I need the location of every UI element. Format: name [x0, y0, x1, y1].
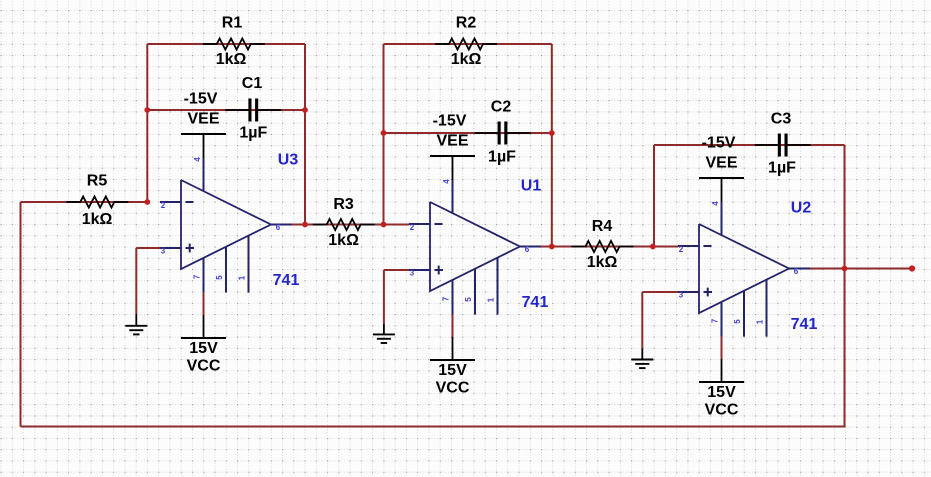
- svg-text:5: 5: [215, 275, 224, 280]
- svg-text:1kΩ: 1kΩ: [216, 51, 247, 68]
- svg-text:R1: R1: [222, 15, 243, 32]
- svg-text:7: 7: [193, 274, 202, 279]
- svg-text:6: 6: [794, 267, 799, 276]
- svg-text:2: 2: [161, 201, 166, 210]
- svg-text:VCC: VCC: [187, 358, 221, 375]
- svg-text:4: 4: [193, 157, 202, 162]
- svg-text:7: 7: [442, 296, 451, 301]
- svg-text:U3: U3: [278, 152, 299, 169]
- svg-text:3: 3: [679, 291, 684, 300]
- svg-text:VEE: VEE: [187, 111, 219, 128]
- svg-text:-15V: -15V: [433, 113, 467, 130]
- svg-text:3: 3: [161, 247, 166, 256]
- svg-text:4: 4: [711, 201, 720, 206]
- svg-text:C1: C1: [242, 75, 263, 92]
- svg-text:1: 1: [487, 297, 496, 302]
- svg-text:1kΩ: 1kΩ: [451, 51, 482, 68]
- svg-text:1kΩ: 1kΩ: [328, 232, 359, 249]
- svg-text:2: 2: [410, 223, 415, 232]
- svg-text:R3: R3: [333, 196, 354, 213]
- svg-text:VCC: VCC: [436, 380, 470, 397]
- svg-text:1: 1: [756, 319, 765, 324]
- svg-text:3: 3: [410, 269, 415, 278]
- svg-text:1µF: 1µF: [768, 160, 796, 177]
- svg-text:1µF: 1µF: [239, 125, 267, 142]
- svg-text:6: 6: [525, 245, 530, 254]
- svg-text:5: 5: [464, 297, 473, 302]
- svg-text:C2: C2: [491, 99, 512, 116]
- svg-text:6: 6: [276, 223, 281, 232]
- svg-text:2: 2: [679, 245, 684, 254]
- svg-text:15V: 15V: [707, 384, 736, 401]
- svg-text:VEE: VEE: [436, 133, 468, 150]
- svg-text:4: 4: [442, 179, 451, 184]
- svg-text:VCC: VCC: [705, 402, 739, 419]
- svg-text:1kΩ: 1kΩ: [82, 211, 113, 228]
- svg-text:R5: R5: [87, 173, 108, 190]
- svg-text:1kΩ: 1kΩ: [587, 254, 618, 271]
- svg-text:U2: U2: [791, 200, 812, 217]
- svg-text:15V: 15V: [189, 340, 218, 357]
- svg-text:5: 5: [733, 319, 742, 324]
- svg-text:1: 1: [238, 275, 247, 280]
- svg-text:U1: U1: [521, 178, 542, 195]
- svg-text:741: 741: [522, 294, 549, 311]
- svg-text:VEE: VEE: [705, 155, 737, 172]
- svg-text:-15V: -15V: [184, 91, 218, 108]
- svg-text:15V: 15V: [438, 362, 467, 379]
- svg-text:741: 741: [273, 272, 300, 289]
- svg-text:R2: R2: [456, 15, 477, 32]
- svg-text:R4: R4: [592, 218, 613, 235]
- svg-text:741: 741: [791, 316, 818, 333]
- svg-text:C3: C3: [771, 111, 792, 128]
- svg-text:7: 7: [711, 318, 720, 323]
- svg-text:-15V: -15V: [702, 135, 736, 152]
- svg-text:1µF: 1µF: [488, 149, 516, 166]
